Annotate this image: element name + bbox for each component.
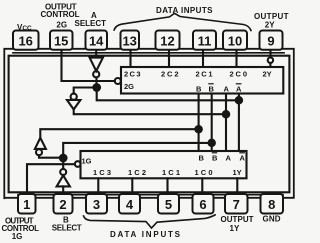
wire A: A2 apex down then right xyxy=(74,109,226,114)
svg-text:B: B xyxy=(209,85,215,94)
svg-text:A: A xyxy=(224,85,230,94)
pin 15 xyxy=(50,31,73,50)
package outline second rail top xyxy=(13,52,284,54)
svg-text:VCC: VCC xyxy=(17,23,32,32)
bubble B1 output xyxy=(60,169,66,175)
wire pin11 stub xyxy=(202,51,204,68)
svg-text:2C0: 2C0 xyxy=(230,70,248,79)
node B junction xyxy=(60,155,67,162)
wire Bbar: junction up and right xyxy=(63,143,212,158)
package outline second rail bottom xyxy=(18,194,283,196)
svg-text:1G: 1G xyxy=(82,157,92,166)
svg-text:14: 14 xyxy=(89,34,104,49)
svg-text:1: 1 xyxy=(23,197,30,212)
pin 4 xyxy=(119,194,140,214)
pin 12 xyxy=(156,31,180,50)
wire Abar: junction down and right xyxy=(97,88,239,101)
svg-text:9: 9 xyxy=(267,34,274,49)
wire pin14 stub xyxy=(95,51,97,58)
svg-text:GND: GND xyxy=(263,215,281,224)
select line A vertical xyxy=(225,94,227,152)
svg-text:3: 3 xyxy=(93,197,100,212)
pin 8 xyxy=(261,194,284,214)
wire 1C2 stub xyxy=(131,178,133,194)
pin 10 xyxy=(223,31,247,50)
svg-text:B: B xyxy=(199,154,205,163)
pin 3 xyxy=(86,194,107,214)
svg-text:13: 13 xyxy=(122,34,136,49)
wire pin1 to 1G xyxy=(27,164,75,194)
svg-text:B: B xyxy=(196,85,202,94)
pin 5 xyxy=(158,194,179,214)
svg-text:2: 2 xyxy=(59,197,66,212)
node A line dot xyxy=(223,111,229,117)
svg-text:DATA INPUTS: DATA INPUTS xyxy=(156,6,213,15)
svg-text:1Y: 1Y xyxy=(233,168,242,177)
wire 1C0 stub xyxy=(201,178,203,194)
pin 6 xyxy=(193,194,214,214)
svg-text:1C1: 1C1 xyxy=(162,168,180,177)
svg-text:4: 4 xyxy=(126,197,134,212)
bubble 2G input xyxy=(115,78,121,84)
wire B: B2 apex up then right xyxy=(40,129,198,138)
select line Bbar vertical xyxy=(211,94,213,152)
node B line dot xyxy=(195,126,201,132)
svg-text:2Y: 2Y xyxy=(265,20,275,29)
node A junction xyxy=(93,84,100,91)
brace over data input pins 13-10 xyxy=(114,13,251,31)
svg-text:1C2: 1C2 xyxy=(128,168,146,177)
svg-text:11: 11 xyxy=(198,34,212,49)
svg-text:2Y: 2Y xyxy=(263,70,272,79)
svg-text:8: 8 xyxy=(268,197,275,212)
wire pin13 stub xyxy=(129,51,131,68)
svg-text:2C1: 2C1 xyxy=(196,70,213,79)
wire B1 bubble to junction xyxy=(62,158,64,169)
wire pin2 stub xyxy=(62,186,64,194)
svg-text:2G: 2G xyxy=(124,82,134,91)
svg-text:16: 16 xyxy=(18,34,32,49)
wire 1Y stub xyxy=(236,178,238,194)
svg-text:12: 12 xyxy=(160,34,174,49)
wire 1C3 stub xyxy=(97,178,99,194)
wire pin15 to 2G xyxy=(62,51,115,82)
select line B vertical xyxy=(198,94,200,152)
wire bubble to block 2Y xyxy=(269,63,271,67)
package outline top rail xyxy=(4,49,294,198)
pin 14 xyxy=(86,31,108,50)
svg-text:OUTPUT: OUTPUT xyxy=(221,215,254,224)
svg-text:DATA INPUTS: DATA INPUTS xyxy=(110,230,181,239)
svg-text:A: A xyxy=(236,85,242,94)
svg-text:2C3: 2C3 xyxy=(124,70,141,79)
node Bbar dot xyxy=(209,140,215,146)
wire A1 bubble to junction xyxy=(95,78,97,88)
svg-text:2C2: 2C2 xyxy=(161,70,179,79)
pin 11 xyxy=(193,31,216,50)
svg-text:7: 7 xyxy=(233,197,240,212)
pin 1 xyxy=(18,194,36,214)
svg-text:A: A xyxy=(226,154,232,163)
svg-text:10: 10 xyxy=(228,34,242,49)
select line Abar vertical xyxy=(238,94,240,152)
bottom mux block U2 xyxy=(81,151,247,178)
pin 7 xyxy=(225,194,248,214)
inverter A1 xyxy=(90,58,103,71)
svg-text:B: B xyxy=(212,154,218,163)
node Abar dot xyxy=(236,97,242,103)
pin 2 xyxy=(54,194,73,214)
top mux block U1 xyxy=(121,67,283,94)
svg-text:1C0: 1C0 xyxy=(195,168,213,177)
bubble B2 input xyxy=(36,149,42,155)
wire 1C1 stub xyxy=(166,178,168,194)
inverter A2 xyxy=(67,100,80,109)
wire junction to inverter B2 xyxy=(39,155,63,158)
svg-text:2G: 2G xyxy=(56,21,67,30)
inverter B1 xyxy=(57,175,70,186)
bubble A2 input xyxy=(71,94,77,100)
pin 9 xyxy=(260,31,283,50)
pin 13 xyxy=(121,31,140,50)
wire pin10 stub xyxy=(235,51,237,68)
svg-text:CONTROL: CONTROL xyxy=(41,10,80,19)
wire pin12 stub xyxy=(168,51,170,68)
svg-text:SELECT: SELECT xyxy=(75,19,107,28)
bubble 1G input xyxy=(75,161,81,167)
svg-text:A: A xyxy=(240,154,246,163)
svg-text:SELECT: SELECT xyxy=(52,224,82,233)
brace under data input pins 3-6 xyxy=(83,215,216,229)
IC body rectangle xyxy=(9,56,290,193)
svg-text:15: 15 xyxy=(54,34,68,49)
bubble on 2Y line xyxy=(268,58,273,63)
svg-text:1Y: 1Y xyxy=(230,224,240,233)
svg-text:5: 5 xyxy=(165,197,172,212)
svg-text:1C3: 1C3 xyxy=(93,168,111,177)
wire pin9 stub upper xyxy=(269,51,271,58)
pin 16 xyxy=(13,31,39,50)
inverter B2 xyxy=(35,138,46,149)
svg-text:6: 6 xyxy=(199,197,206,212)
svg-text:1G: 1G xyxy=(12,232,23,241)
wire junction to inverter A2 xyxy=(74,88,97,94)
bubble A1 output xyxy=(93,71,99,77)
